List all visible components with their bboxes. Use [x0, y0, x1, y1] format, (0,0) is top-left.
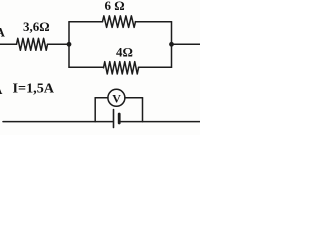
wire: R2 to right vertical: [136, 21, 172, 23]
wire: right vertical of parallel branch: [171, 22, 173, 68]
wire: top branch lead into R2: [69, 21, 103, 23]
voltmeter V circle: [108, 89, 125, 106]
wire: voltmeter left vertical drop: [94, 98, 96, 122]
wire: R1 to left node: [48, 43, 70, 45]
resistor R2 6Ω: [103, 16, 136, 28]
battery short plate: [118, 114, 121, 123]
wire: voltmeter left lead: [95, 97, 108, 99]
node: right junction dot: [169, 42, 174, 47]
svg-text:6 Ω: 6 Ω: [105, 0, 125, 13]
wire: battery to bottom right edge: [120, 121, 200, 123]
wire: bottom branch lead into R3: [69, 66, 104, 68]
svg-text:V: V: [112, 91, 121, 105]
wire: voltmeter right vertical drop: [142, 98, 144, 122]
wire: R3 to right vertical: [139, 66, 172, 68]
wire: bottom left to battery: [3, 121, 113, 123]
wire: left lead into R1: [0, 43, 17, 45]
wire: left vertical of parallel branch: [68, 22, 70, 68]
wire: voltmeter right lead: [125, 97, 143, 99]
svg-text:4Ω: 4Ω: [116, 45, 133, 60]
svg-text:A: A: [0, 82, 3, 97]
svg-text:I=1,5A: I=1,5A: [13, 82, 55, 97]
svg-text:A: A: [0, 25, 6, 40]
resistor R1 3,6Ω: [17, 38, 48, 50]
resistor R3 4Ω: [104, 62, 139, 74]
svg-text:3,6Ω: 3,6Ω: [23, 19, 50, 34]
node: left junction dot: [67, 42, 72, 47]
battery long plate: [113, 110, 115, 128]
wire: right node to right edge: [172, 43, 201, 45]
